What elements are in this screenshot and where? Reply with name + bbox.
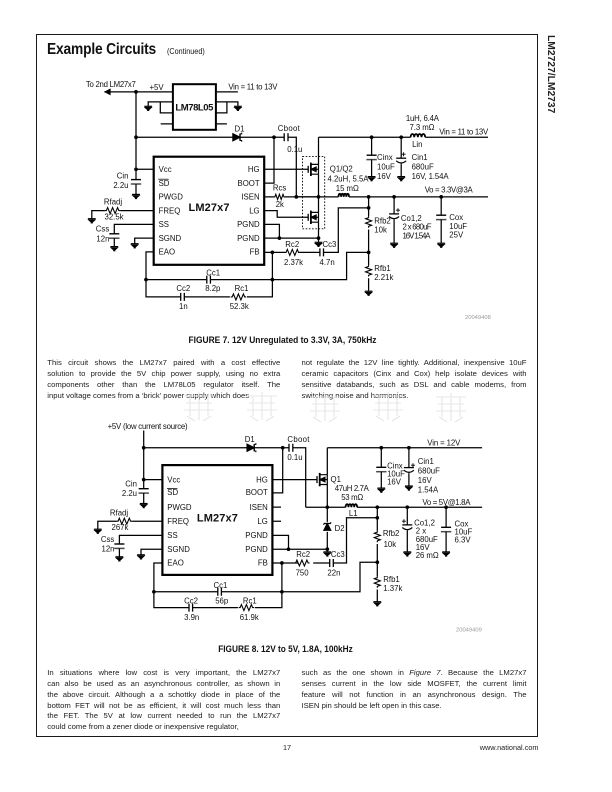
svg-text:25V: 25V xyxy=(449,231,464,240)
svg-text:10uF: 10uF xyxy=(449,222,467,231)
svg-text:Cc2: Cc2 xyxy=(184,597,198,606)
svg-text:Rcs: Rcs xyxy=(273,184,287,193)
svg-text:D2: D2 xyxy=(335,524,345,533)
svg-text:Cboot: Cboot xyxy=(287,435,310,444)
svg-text:Cc1: Cc1 xyxy=(214,581,228,590)
svg-text:Cc1: Cc1 xyxy=(206,268,220,277)
svg-text:680uF: 680uF xyxy=(412,162,434,171)
svg-text:7.3 mΩ: 7.3 mΩ xyxy=(410,123,435,132)
svg-text:+5V (low current source): +5V (low current source) xyxy=(108,422,188,431)
svg-text:Lin: Lin xyxy=(412,140,422,149)
svg-text:BOOT: BOOT xyxy=(238,179,260,188)
svg-text:Vcc: Vcc xyxy=(159,165,172,174)
svg-text:Cc2: Cc2 xyxy=(176,284,190,293)
svg-text:4.2uH, 5.5A: 4.2uH, 5.5A xyxy=(328,174,370,183)
svg-text:FREQ: FREQ xyxy=(167,517,189,526)
svg-text:BOOT: BOOT xyxy=(246,488,268,497)
svg-text:Rc1: Rc1 xyxy=(243,597,257,606)
svg-text:10k: 10k xyxy=(374,225,387,234)
svg-text:PGND: PGND xyxy=(237,234,260,243)
svg-text:Rc2: Rc2 xyxy=(296,550,310,559)
svg-text:Cboot: Cboot xyxy=(278,124,301,133)
svg-text:1.37k: 1.37k xyxy=(383,584,402,593)
svg-text:1.54A: 1.54A xyxy=(418,485,439,494)
svg-text:2k: 2k xyxy=(276,200,284,209)
svg-text:Q1: Q1 xyxy=(331,475,341,484)
svg-text:Rfb2: Rfb2 xyxy=(383,529,399,538)
svg-text:0.1u: 0.1u xyxy=(287,453,302,462)
svg-text:Rc2: Rc2 xyxy=(285,240,299,249)
svg-text:Rfadj: Rfadj xyxy=(110,508,128,517)
svg-text:+5V: +5V xyxy=(150,83,165,92)
svg-text:4.7n: 4.7n xyxy=(320,258,335,267)
svg-text:Css: Css xyxy=(101,535,115,544)
svg-text:16V 1.54A: 16V 1.54A xyxy=(403,232,432,241)
svg-text:D1: D1 xyxy=(245,435,255,444)
svg-text:16V: 16V xyxy=(387,478,402,487)
svg-text:Vin = 11 to 13V: Vin = 11 to 13V xyxy=(439,127,489,136)
svg-text:PGND: PGND xyxy=(245,545,268,554)
svg-text:PGND: PGND xyxy=(245,531,268,540)
svg-text:HG: HG xyxy=(256,475,268,484)
svg-text:Cin1: Cin1 xyxy=(418,457,434,466)
svg-text:FB: FB xyxy=(250,248,260,257)
svg-text:750: 750 xyxy=(296,569,310,578)
svg-text:16V: 16V xyxy=(377,172,392,181)
svg-text:Cc3: Cc3 xyxy=(323,240,337,249)
svg-text:20049409: 20049409 xyxy=(456,628,482,634)
svg-text:15 mΩ: 15 mΩ xyxy=(336,184,359,193)
svg-text:FB: FB xyxy=(258,559,268,568)
svg-text:6.3V: 6.3V xyxy=(455,536,472,545)
svg-text:3.9n: 3.9n xyxy=(184,613,199,622)
svg-text:2.37k: 2.37k xyxy=(284,258,303,267)
svg-text:56p: 56p xyxy=(215,597,229,606)
svg-text:1n: 1n xyxy=(179,302,188,311)
svg-text:12n: 12n xyxy=(102,544,115,553)
svg-text:0.1u: 0.1u xyxy=(287,145,302,154)
svg-text:To 2nd LM27x7: To 2nd LM27x7 xyxy=(86,80,136,89)
svg-text:680uF: 680uF xyxy=(418,467,440,476)
svg-text:26 mΩ: 26 mΩ xyxy=(416,551,439,560)
svg-text:20049408: 20049408 xyxy=(465,315,491,321)
svg-text:Q1/Q2: Q1/Q2 xyxy=(330,165,353,174)
svg-text:L1: L1 xyxy=(349,509,358,518)
svg-text:Rfb2: Rfb2 xyxy=(374,217,390,226)
svg-text:Co1,2: Co1,2 xyxy=(401,214,422,223)
svg-text:LM27x7: LM27x7 xyxy=(189,202,230,214)
svg-text:EAO: EAO xyxy=(159,248,175,257)
svg-text:Cc3: Cc3 xyxy=(331,550,345,559)
svg-text:SGND: SGND xyxy=(159,234,182,243)
svg-text:1uH, 6.4A: 1uH, 6.4A xyxy=(406,114,440,123)
svg-text:22n: 22n xyxy=(327,568,340,577)
svg-text:32.5k: 32.5k xyxy=(105,213,124,222)
svg-text:2.21k: 2.21k xyxy=(374,273,393,282)
svg-text:47uH 2.7A: 47uH 2.7A xyxy=(335,484,370,493)
svg-text:SS: SS xyxy=(167,531,177,540)
svg-text:ISEN: ISEN xyxy=(250,503,268,512)
svg-text:LG: LG xyxy=(257,517,267,526)
svg-text:2.2u: 2.2u xyxy=(122,489,137,498)
svg-text:D1: D1 xyxy=(235,124,245,133)
svg-text:PWGD: PWGD xyxy=(159,193,184,202)
svg-text:Rc1: Rc1 xyxy=(235,284,249,293)
svg-text:SD: SD xyxy=(159,179,170,188)
svg-text:Vo = 3.3V@3A: Vo = 3.3V@3A xyxy=(425,186,474,195)
svg-text:10uF: 10uF xyxy=(377,162,395,171)
svg-text:Rfb1: Rfb1 xyxy=(374,264,390,273)
svg-text:Cin1: Cin1 xyxy=(412,153,428,162)
svg-text:SD: SD xyxy=(167,488,178,497)
svg-text:ISEN: ISEN xyxy=(241,193,259,202)
svg-text:PGND: PGND xyxy=(237,220,260,229)
svg-text:LG: LG xyxy=(249,206,259,215)
svg-text:16V: 16V xyxy=(418,476,433,485)
svg-text:12n: 12n xyxy=(96,234,109,243)
svg-text:Vin = 11 to 13V: Vin = 11 to 13V xyxy=(228,82,278,91)
svg-text:Cin: Cin xyxy=(117,172,129,181)
svg-text:Cox: Cox xyxy=(449,213,463,222)
svg-text:Rfadj: Rfadj xyxy=(104,197,122,206)
svg-text:Vin = 12V: Vin = 12V xyxy=(427,439,461,448)
svg-text:52.3k: 52.3k xyxy=(230,302,249,311)
svg-text:Vo = 5V@1.8A: Vo = 5V@1.8A xyxy=(422,498,471,507)
svg-text:Css: Css xyxy=(96,224,110,233)
svg-text:10k: 10k xyxy=(384,540,397,549)
svg-text:Cinx: Cinx xyxy=(377,153,393,162)
svg-text:8.2p: 8.2p xyxy=(205,284,221,293)
svg-text:267k: 267k xyxy=(112,523,129,532)
svg-text:SS: SS xyxy=(159,220,169,229)
svg-text:61.9k: 61.9k xyxy=(240,613,259,622)
svg-text:2.2u: 2.2u xyxy=(113,181,128,190)
svg-text:Cin: Cin xyxy=(125,479,137,488)
svg-text:LM78L05: LM78L05 xyxy=(175,102,214,113)
svg-text:PWGD: PWGD xyxy=(167,503,192,512)
svg-text:53 mΩ: 53 mΩ xyxy=(341,493,363,502)
svg-text:Rfb1: Rfb1 xyxy=(383,575,399,584)
svg-text:16V, 1.54A: 16V, 1.54A xyxy=(412,172,450,181)
svg-text:EAO: EAO xyxy=(167,559,183,568)
svg-text:2 x 680uF: 2 x 680uF xyxy=(403,223,432,232)
svg-text:SGND: SGND xyxy=(167,545,190,554)
svg-text:HG: HG xyxy=(248,165,260,174)
svg-text:FREQ: FREQ xyxy=(159,206,181,215)
svg-text:Vcc: Vcc xyxy=(167,475,180,484)
svg-text:LM27x7: LM27x7 xyxy=(197,513,238,525)
